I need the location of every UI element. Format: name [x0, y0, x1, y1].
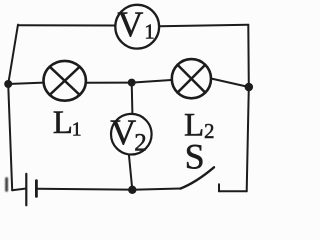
- wire node C down to voltmeter V2: [131, 83, 134, 114]
- node A junction dot: [4, 80, 12, 88]
- wire node A to lamp L1: [8, 83, 43, 84]
- node C junction dot: [128, 79, 136, 87]
- switch S blade: [180, 167, 214, 188]
- lamp L1 circle: [43, 61, 85, 101]
- label V2: [110, 112, 147, 156]
- svg-text:S: S: [185, 137, 205, 177]
- switch S right contact tick: [218, 184, 220, 191]
- wire top-left (corner to V1): [18, 24, 115, 26]
- label V1: [117, 4, 154, 44]
- wire node D to switch pivot: [132, 189, 180, 190]
- wire node C to lamp L2: [132, 80, 172, 83]
- wire voltmeter V2 down to node D: [129, 155, 132, 190]
- label L1: [53, 105, 82, 141]
- node B junction dot: [245, 83, 254, 92]
- wire right vertical upper (top corner to node B): [247, 25, 250, 87]
- lamp L2 circle: [172, 59, 211, 98]
- wire left vertical lower (node A to bottom corner): [8, 84, 12, 190]
- svg-text:2: 2: [204, 119, 215, 143]
- battery long plate (positive): [25, 174, 27, 205]
- label L2: [184, 107, 215, 143]
- wire lamp L2 to node B: [212, 79, 249, 87]
- svg-text:1: 1: [72, 118, 82, 140]
- svg-text:V: V: [117, 4, 143, 44]
- voltmeter V1 circle: [115, 5, 159, 49]
- wire switch contact to bottom-right corner: [219, 190, 247, 192]
- wire right vertical lower (node B to bottom corner): [247, 87, 249, 191]
- voltmeter V2 circle: [111, 114, 152, 155]
- svg-text:1: 1: [144, 19, 155, 43]
- label S: [185, 137, 205, 177]
- svg-text:V: V: [110, 112, 136, 152]
- wire lamp L1 to node C: [86, 82, 132, 84]
- wire battery to node D: [37, 188, 132, 191]
- svg-text:L: L: [53, 105, 73, 141]
- battery short plate (negative): [35, 181, 38, 197]
- wire bottom-left corner to battery: [12, 189, 25, 191]
- wire top-right (V1 to corner): [159, 25, 248, 26]
- svg-text:2: 2: [134, 130, 147, 157]
- wire left vertical (top corner to node A): [8, 25, 18, 84]
- node D junction dot: [128, 186, 136, 194]
